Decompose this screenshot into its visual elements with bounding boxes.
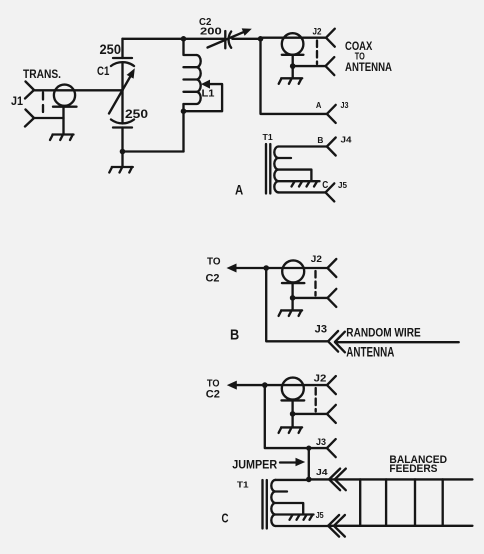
label TRANS. xyxy=(23,67,61,81)
label C1 xyxy=(97,66,110,78)
label 200 xyxy=(200,26,222,38)
node dot J2 shield branch xyxy=(290,63,296,69)
svg-text:JUMPER: JUMPER xyxy=(232,457,277,471)
ground (T1 C tap) xyxy=(290,515,313,520)
arrow jumper pointer xyxy=(280,458,305,466)
connector J5 (A) xyxy=(326,183,335,201)
wire L1 tap loop xyxy=(184,80,223,112)
label C2 (B) xyxy=(206,273,220,285)
label J5 (C) xyxy=(316,510,324,520)
wire feeder rung 4 xyxy=(442,479,444,525)
svg-text:J3: J3 xyxy=(341,100,349,110)
svg-text:FEEDERS: FEEDERS xyxy=(389,463,437,475)
wire junction to J2 (C) xyxy=(265,384,327,386)
ground (T1 A tap) xyxy=(292,182,318,187)
svg-text:T1: T1 xyxy=(237,479,249,489)
connector J3 (C) xyxy=(327,439,336,457)
wire C1 junction to L1 bottom xyxy=(123,150,184,152)
wire balanced feeder top xyxy=(309,478,473,480)
transformer T1 core (C) xyxy=(263,480,267,529)
ground (J2 C) xyxy=(279,427,303,433)
label section A xyxy=(235,181,243,197)
node dot rail (C) xyxy=(262,382,268,388)
svg-text:J2: J2 xyxy=(311,254,322,264)
label 250 (C1 upper) xyxy=(100,42,122,57)
capacitor C1 upper section xyxy=(111,39,134,91)
svg-text:TO: TO xyxy=(207,257,221,268)
svg-text:C1: C1 xyxy=(97,66,110,78)
wire junction to J2 (B) xyxy=(266,267,327,269)
label node B xyxy=(317,135,323,145)
svg-text:B: B xyxy=(317,135,323,145)
arrow C2 rotor xyxy=(208,28,252,47)
label 250 (C1 lower) xyxy=(125,107,148,121)
node dot J2 shield branch (B) xyxy=(290,295,296,301)
label node A xyxy=(316,100,322,110)
svg-text:J2: J2 xyxy=(313,26,322,37)
connector J1 xyxy=(25,82,77,134)
label RANDOM WIRE xyxy=(346,327,421,339)
connector J5 (C) xyxy=(328,515,345,537)
wire C1 bottom to ground xyxy=(121,152,123,167)
arrow C1 rotor xyxy=(109,68,135,113)
label J3 (C) xyxy=(316,437,326,447)
svg-text:C: C xyxy=(222,510,229,525)
svg-text:J3: J3 xyxy=(315,324,327,336)
label J3 (A) xyxy=(341,100,349,110)
svg-text:T1: T1 xyxy=(263,132,273,142)
label ANTENNA xyxy=(345,60,392,74)
wire L1 bottom down xyxy=(182,111,184,151)
ground (J2 B) xyxy=(279,310,303,316)
node dot rail J2 junction xyxy=(258,36,264,42)
label node C xyxy=(322,180,328,191)
transformer T1 winding (C) xyxy=(271,480,328,526)
node dot C1 bottom junction xyxy=(120,149,126,155)
label C2 xyxy=(199,16,211,28)
label L1 xyxy=(202,87,215,99)
transformer T1 winding (A) xyxy=(274,147,327,193)
label ANTENNA (B) xyxy=(346,344,394,359)
svg-text:250: 250 xyxy=(100,42,122,57)
svg-text:J4: J4 xyxy=(316,467,328,477)
label T1 (A) xyxy=(263,132,273,142)
capacitor C1 lower section xyxy=(111,90,134,151)
label T1 (C) xyxy=(237,479,249,489)
inductor L1 xyxy=(184,39,201,111)
label J4 (A) xyxy=(341,135,352,145)
label BALANCED xyxy=(389,454,447,466)
wire J1 to C1 xyxy=(34,89,123,91)
label TO (C) xyxy=(207,378,220,389)
node dot L1 bottom xyxy=(181,108,187,114)
svg-text:C2: C2 xyxy=(206,273,220,285)
node dot J2 shield branch (C) xyxy=(290,411,296,417)
capacitor C2 xyxy=(225,31,231,48)
svg-text:J4: J4 xyxy=(341,135,352,145)
wire feeder rung 1 xyxy=(359,479,361,525)
label JUMPER xyxy=(232,457,277,471)
connector J2 (C) xyxy=(282,376,336,427)
label J3 (B) xyxy=(315,324,327,336)
wire balanced feeder bottom xyxy=(328,525,472,527)
wire junction down to J3 (C) xyxy=(265,385,327,448)
node dot L1 top xyxy=(181,36,187,42)
svg-text:B: B xyxy=(230,328,239,344)
label J5 (A) xyxy=(338,180,347,190)
connector J3 (A) xyxy=(327,105,336,123)
svg-text:J1: J1 xyxy=(11,94,23,108)
wire junction down to J3 (B) xyxy=(266,268,328,341)
svg-text:J2: J2 xyxy=(314,373,327,385)
label section C xyxy=(222,510,229,525)
wire feeder rung 3 xyxy=(414,479,416,525)
transformer T1 core (A) xyxy=(266,144,270,194)
svg-text:ANTENNA: ANTENNA xyxy=(346,344,394,359)
svg-text:250: 250 xyxy=(125,107,148,121)
svg-text:J5: J5 xyxy=(316,510,324,520)
label J1 xyxy=(11,94,23,108)
label J2 (C) xyxy=(314,373,327,385)
node dot jumper bottom xyxy=(306,477,312,483)
label TO (B) xyxy=(207,257,221,268)
wire junction down to J3 (A) xyxy=(261,39,327,114)
node dot jumper top xyxy=(306,446,311,451)
label C2 (C) xyxy=(206,388,220,400)
node dot rail (B) xyxy=(263,265,269,271)
wire top rail C1 to C2 xyxy=(123,38,225,40)
svg-text:A: A xyxy=(235,181,243,197)
connector J4 (A) xyxy=(327,138,336,156)
label J2 (B) xyxy=(311,254,322,264)
label section B xyxy=(230,328,239,344)
label J4 (C) xyxy=(316,467,328,477)
svg-text:ANTENNA: ANTENNA xyxy=(345,60,392,74)
connector J3 (B) xyxy=(328,331,345,352)
label COAX xyxy=(345,39,372,53)
wire random wire antenna xyxy=(337,341,459,343)
arrow to C2 (C) xyxy=(227,381,265,390)
svg-text:TRANS.: TRANS. xyxy=(23,67,61,81)
svg-text:C2: C2 xyxy=(206,388,220,400)
connector J4 (C) xyxy=(329,469,346,491)
svg-text:J3: J3 xyxy=(316,437,326,447)
connector J2 (B) xyxy=(282,259,336,310)
svg-text:200: 200 xyxy=(200,26,222,38)
ground (C1) xyxy=(109,167,133,173)
label FEEDERS xyxy=(389,463,437,475)
arrow to C2 (B) xyxy=(227,264,267,273)
svg-text:RANDOM WIRE: RANDOM WIRE xyxy=(346,327,421,339)
wire jumper J3 to J4 xyxy=(308,448,310,479)
svg-text:A: A xyxy=(316,100,322,110)
ground (J2 A) xyxy=(279,78,303,84)
connector J2 (A) xyxy=(282,29,335,78)
label J2 (A) xyxy=(313,26,322,37)
wire junction to J2 xyxy=(261,37,327,39)
svg-text:L1: L1 xyxy=(202,87,215,99)
ground (J1) xyxy=(50,135,74,141)
label TO xyxy=(355,51,365,63)
svg-text:J5: J5 xyxy=(338,180,347,190)
wire C2 to J2 junction xyxy=(232,38,260,40)
wire feeder rung 2 xyxy=(385,479,387,525)
